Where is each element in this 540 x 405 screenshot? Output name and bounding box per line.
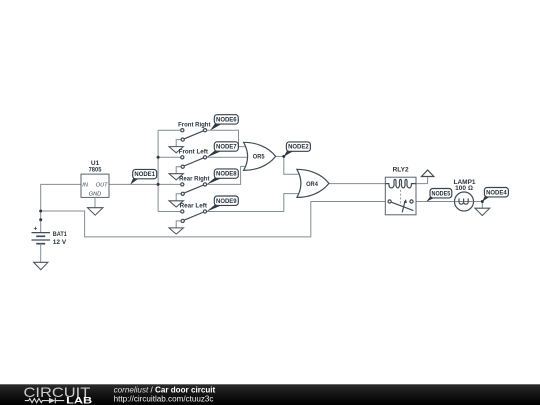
flag pointer NODE2	[284, 150, 294, 157]
flag pointer NODE9	[206, 204, 221, 212]
node NODE8 flag	[206, 169, 238, 185]
lamp filament	[459, 199, 468, 205]
battery BAT1 12V	[32, 226, 68, 246]
ground front-left	[169, 174, 183, 180]
switch lever	[184, 131, 204, 139]
svg-text:Rear Right: Rear Right	[179, 176, 210, 183]
flag box NODE6	[214, 115, 238, 124]
ground front-right	[169, 147, 183, 153]
relay dashed link	[400, 190, 402, 204]
pole terminal	[181, 165, 184, 168]
ground node4	[475, 208, 490, 215]
wire node4 junction to ground	[481, 202, 483, 209]
terminal 1	[181, 129, 184, 132]
wire node8 net to OR5 input 3	[206, 166, 247, 184]
footer bar	[0, 384, 540, 405]
svg-text:NODE8: NODE8	[216, 171, 237, 178]
wire node6 net to OR5 input 1	[206, 130, 247, 146]
battery plates	[32, 232, 51, 234]
wire battery top to U1 IN	[41, 184, 81, 232]
OR4 body	[297, 169, 329, 197]
switch lever	[184, 185, 204, 193]
node junction rail row3	[157, 183, 160, 186]
pole terminal	[181, 192, 184, 195]
switch SW rear-left	[169, 203, 208, 234]
switch SW front-left	[169, 149, 209, 180]
switch lever	[184, 158, 204, 166]
relay lever	[391, 202, 413, 211]
svg-text:100 Ω: 100 Ω	[455, 185, 473, 192]
svg-text:12 V: 12 V	[53, 239, 67, 246]
node NODE4 junction	[481, 200, 484, 203]
wire row front-left	[158, 156, 181, 158]
svg-text:OR5: OR5	[253, 154, 265, 161]
svg-text:Rear Left: Rear Left	[180, 203, 208, 210]
wire battery to ground	[40, 244, 42, 263]
svg-text:NODE1: NODE1	[134, 171, 155, 178]
svg-text:BAT1: BAT1	[53, 231, 67, 238]
svg-text:corneliust / Car door circuit: corneliust / Car door circuit	[114, 386, 216, 395]
wire node7 net to OR5 input 2	[206, 156, 249, 158]
wire left rail	[157, 130, 159, 211]
wire pole to ground	[176, 221, 181, 228]
flag pointer NODE5	[426, 195, 437, 202]
op-amp OR4 gate	[297, 169, 329, 197]
svg-text:NODE4: NODE4	[486, 189, 507, 196]
svg-text:NODE5: NODE5	[432, 190, 451, 197]
terminal 2	[203, 156, 206, 159]
flag pointer NODE6	[210, 123, 221, 131]
svg-text:7805: 7805	[89, 167, 102, 174]
switch SW rear-right	[169, 176, 210, 207]
flag box NODE4	[484, 188, 508, 197]
wire row rear-left	[158, 211, 181, 213]
node NODE6 flag	[210, 115, 238, 131]
wire pole to ground	[176, 140, 181, 147]
switch lever	[184, 212, 204, 220]
svg-text:Front Right: Front Right	[178, 121, 211, 128]
wire relay switch to lamp	[413, 201, 456, 203]
flag pointer NODE4	[482, 195, 491, 202]
svg-text:+: +	[34, 226, 38, 233]
power supply flag	[422, 170, 434, 177]
terminal 1	[181, 156, 184, 159]
node NODE4 flag	[482, 188, 508, 202]
wire OR4 output to relay coil	[329, 183, 387, 185]
node NODE9 flag	[206, 196, 238, 212]
svg-text:NODE9: NODE9	[216, 198, 237, 205]
node NODE2 flag	[284, 142, 311, 157]
node NODE5 flag	[426, 189, 452, 202]
ground battery	[34, 262, 48, 270]
svg-text:IN: IN	[82, 182, 89, 188]
svg-text:NODE6: NODE6	[216, 117, 237, 124]
terminal 2	[203, 129, 206, 132]
wire node2 junction to OR4 input 1	[284, 156, 300, 174]
relay body	[385, 177, 416, 215]
node junction battery terminal	[39, 218, 42, 221]
wire pole to ground	[176, 167, 181, 174]
node NODE2 junction	[282, 155, 285, 158]
lamp LAMP1 100 ohm	[453, 179, 475, 211]
wire row rear-right	[158, 183, 181, 185]
flag box NODE7	[214, 142, 238, 151]
wire U1 OUT to left rail	[109, 183, 158, 185]
node NODE1 flag	[130, 169, 157, 184]
pole terminal	[181, 138, 184, 141]
node NODE7 flag	[206, 142, 238, 158]
svg-text:http://circuitlab.com/ctuuz3c: http://circuitlab.com/ctuuz3c	[114, 395, 214, 404]
wire row front-right	[158, 129, 181, 131]
svg-text:LAB: LAB	[66, 396, 93, 405]
svg-text:NODE7: NODE7	[216, 144, 237, 151]
OR5 body	[244, 142, 276, 170]
switch SW front-right	[169, 121, 211, 152]
wire U1 GND stem	[94, 197, 96, 207]
relay RLY2	[385, 167, 416, 215]
svg-text:GND: GND	[89, 191, 101, 197]
svg-text:OUT: OUT	[96, 182, 108, 188]
op-amp OR5 gate	[244, 142, 276, 170]
svg-text:OR4: OR4	[306, 181, 318, 188]
flag box NODE5	[430, 189, 452, 198]
regulator U1	[81, 160, 109, 198]
flag box NODE9	[214, 196, 238, 205]
relay coil	[385, 179, 416, 188]
node junction battery branch	[39, 210, 42, 213]
svg-text:Front Left: Front Left	[179, 149, 209, 156]
U1 body	[81, 174, 109, 197]
ground U1	[88, 208, 103, 216]
logo squiggle resistor and diode	[25, 398, 64, 404]
flag pointer NODE8	[206, 177, 221, 185]
wire relay coil to supply flag	[415, 177, 428, 184]
flag pointer NODE1	[130, 177, 139, 185]
wire 12V rail battery to relay switch	[41, 202, 388, 237]
flag pointer NODE7	[206, 150, 221, 158]
lamp body	[455, 192, 474, 211]
node junction rail row2	[157, 156, 160, 159]
flag box NODE2	[286, 142, 310, 151]
wire OR5 output to node2 junction	[276, 155, 284, 157]
relay arrow	[402, 201, 405, 213]
svg-text:RLY2: RLY2	[393, 167, 409, 174]
terminal 1	[181, 183, 184, 186]
terminal 1	[181, 210, 184, 213]
ground rear-left	[169, 228, 183, 234]
flag box NODE8	[214, 169, 238, 178]
pole terminal	[181, 219, 184, 222]
wire node9 net to OR4 input 2	[206, 194, 299, 212]
wire through lamp	[455, 201, 474, 203]
flag box NODE1	[133, 169, 157, 178]
ground rear-right	[169, 201, 183, 207]
terminal 2	[203, 183, 206, 186]
terminal 2	[203, 210, 206, 213]
svg-text:NODE2: NODE2	[288, 144, 309, 151]
wire lamp to node4 junction	[472, 201, 482, 203]
wire pole to ground	[176, 194, 181, 201]
relay contact pins	[388, 200, 391, 203]
